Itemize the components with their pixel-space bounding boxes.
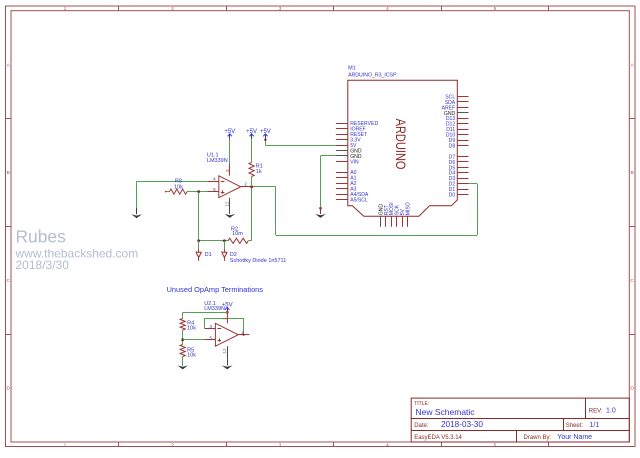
svg-text:D0: D0 [449,193,456,199]
op-amp U2.1 part [204,306,225,312]
svg-text:M1: M1 [348,65,356,71]
svg-text:A: A [630,62,634,68]
svg-text:5: 5 [494,6,497,12]
diode D2 description [230,258,286,264]
node feedback junction [243,334,245,336]
node junction R8/pin5 [197,190,200,193]
op-amp U1.1 part [207,158,228,164]
svg-text:2: 2 [171,6,174,12]
svg-text:2: 2 [241,330,244,335]
node junction R4/R5 [181,338,184,341]
arduino bottom pin leads [381,216,408,227]
svg-text:3: 3 [279,6,282,12]
arduino left pin names [350,121,378,203]
title block Date label [414,423,429,429]
svg-text:10k: 10k [187,353,196,359]
resistor R8 refdes [175,179,182,185]
title block sheet value [590,422,600,429]
svg-text:4: 4 [386,6,389,12]
svg-text:12: 12 [222,348,227,354]
svg-text:1.0: 1.0 [606,408,616,415]
svg-text:D: D [6,386,10,392]
op-amp U1.1 output lead [241,186,252,188]
watermark Rubes [16,227,67,247]
svg-text:VIN: VIN [350,159,359,165]
arduino right pin names [442,94,456,198]
svg-text:12: 12 [225,201,230,207]
wire +5V to pin3 [229,139,231,164]
svg-text:5: 5 [209,335,212,340]
svg-text:Schottky Diode 1n5711: Schottky Diode 1n5711 [230,258,286,264]
svg-text:1: 1 [64,442,67,448]
svg-text:Date:: Date: [414,423,429,429]
svg-text:1/1: 1/1 [590,422,600,429]
wire arduino GND to ground [321,156,336,209]
op-amp U2.1 pin4 lead [204,328,215,330]
svg-text:New Schematic: New Schematic [416,407,476,417]
op-amp U1.1 refdes [207,153,219,159]
node output junction [250,185,253,188]
ground G3 (arduino GND) [315,207,326,218]
op-amp U1.1 pin3 power [225,164,230,176]
svg-text:B: B [7,170,10,176]
resistor R8 value [174,184,183,190]
svg-text:2: 2 [244,182,247,187]
wire up to arduino D2 [469,184,478,236]
wire R2 to output riser [248,240,251,242]
svg-text:ARDUINO: ARDUINO [393,119,409,170]
watermark url [15,247,139,261]
svg-text:A5/SCL: A5/SCL [350,197,368,203]
svg-text:1: 1 [64,6,67,12]
power flag +5V (op-amp supply) [224,129,235,139]
resistor R5 value [187,353,196,359]
wire +5V to arduino 5V [265,139,336,146]
power flag +5V (R1 pull-up) [246,129,257,139]
resistor R1 refdes [256,164,263,170]
arduino refdes M1 [348,65,356,71]
svg-text:REV:: REV: [589,409,603,415]
power flag +5V (U2.1) [222,303,233,313]
wire junction down to diode rail [198,192,200,241]
svg-text:Sheet:: Sheet: [566,423,584,429]
resistor R2 [228,238,248,243]
node +5V U2 junction [226,311,229,314]
resistor R4 refdes [187,320,194,326]
arduino right pin leads [457,97,468,195]
diode D2 refdes [230,252,237,258]
svg-text:Rubes: Rubes [16,227,67,247]
svg-text:C: C [630,278,634,284]
op-amp U1.1 pin5 lead [208,191,219,193]
wire +5V to R4 [183,312,228,318]
svg-text:3: 3 [279,442,282,448]
op-amp U2.1 body [215,323,238,346]
arduino bottom pin names [378,202,411,215]
svg-text:10k: 10k [174,184,183,190]
ground G5 (op-amp U2.1) [222,366,233,370]
op-amp U1.1 pin numbers [213,176,247,192]
title block box [411,398,629,442]
svg-text:3: 3 [223,317,228,320]
ground G1 [131,208,142,218]
title block title value [416,407,476,417]
op-amp U2.1 output lead [238,334,249,336]
wire to diode D2 [224,241,226,250]
node +5V stem dot [264,139,266,141]
wire R8 to pin5 [187,191,208,193]
watermark date [16,258,70,272]
arduino left pin leads [336,124,348,200]
arduino part name [348,73,397,79]
svg-text:B: B [630,170,633,176]
svg-text:4: 4 [209,324,212,329]
arduino U-module outline M1 [348,80,458,216]
ground G2 (op-amp U1.1) [225,214,236,218]
node junction D1 [197,239,200,242]
op-amp U1.1 pin12 lead [225,198,230,214]
op-amp U2.1 pin12 lead [222,346,228,365]
svg-text:10m: 10m [232,231,243,237]
wire riser to output node [251,187,253,241]
svg-text:D: D [630,386,634,392]
resistor R4 [180,319,185,331]
svg-text:2018-03-30: 2018-03-30 [441,420,483,429]
power flag +5V (arduino 5V) [260,129,271,139]
svg-text:1k: 1k [256,169,262,175]
arduino big label [393,119,409,170]
resistor R2 value [232,231,243,237]
node junction D2 [223,239,226,242]
wire to diode D1 [198,241,200,250]
wire long bottom run [276,235,477,237]
wire feedback loop [204,318,243,335]
svg-text:EasyEDA V5.3.14: EasyEDA V5.3.14 [414,435,462,441]
wire down to ground G1 [136,181,138,208]
svg-text:D8: D8 [449,143,456,149]
wire output node right [252,186,276,188]
svg-text:MISO: MISO [406,202,412,215]
svg-text:LM339N: LM339N [207,158,228,164]
svg-text:A: A [7,62,11,68]
title block rev value [606,408,616,415]
svg-text:C: C [6,278,10,284]
diode D2 [222,250,227,261]
svg-text:5: 5 [494,442,497,448]
op-amp U1.1 pin4 lead [208,181,219,183]
op-amp U2.1 pin5 lead [204,339,215,341]
resistor R1 [249,163,254,177]
svg-text:ARDUINO_R3_ICSP: ARDUINO_R3_ICSP [348,73,397,79]
svg-text:Drawn By:: Drawn By: [524,435,552,441]
resistor R5 refdes [187,348,194,354]
svg-text:Unused OpAmp Terminations: Unused OpAmp Terminations [167,285,264,294]
wire R1 to output node [251,177,253,187]
svg-text:2: 2 [171,442,174,448]
svg-text:D1: D1 [205,252,212,258]
wire R4 to R5 [182,330,184,345]
resistor R8 [165,189,187,194]
wire down long run [275,187,277,235]
resistor R2 refdes [231,226,238,232]
svg-text:4: 4 [213,176,216,181]
resistor R1 value [256,169,262,175]
wire divider to pin5 [183,339,205,341]
diode D1 refdes [205,252,212,258]
op-amp U2.1 pin numbers [209,324,244,340]
svg-text:4: 4 [386,442,389,448]
title block drawn-by value [557,434,592,441]
title block EasyEDA version [414,435,462,441]
title block REV label [589,409,603,415]
diode D1 [196,250,201,261]
svg-text:2018/3/30: 2018/3/30 [16,258,70,272]
op-amp U2.1 pin3 power [223,312,228,323]
op-amp U1.1 body [219,176,241,198]
svg-text:5: 5 [213,187,216,192]
section title [167,285,264,294]
title block Sheet label [566,423,584,429]
svg-text:10k: 10k [187,325,196,331]
wire diode rail D1-D2 [199,240,228,242]
wire +5V to R1 [251,139,253,163]
resistor R5 [180,345,185,357]
op-amp U2.1 refdes [204,301,216,307]
title block TITLE label [414,401,429,407]
title block Drawn By label [524,435,552,441]
resistor R4 value [187,325,196,331]
wire R5 to ground [182,357,184,365]
svg-text:Your Name: Your Name [557,434,592,441]
title block date value [441,420,483,429]
ground G4 (R5) [177,365,188,370]
wire pin4 input to ground run [137,181,208,183]
